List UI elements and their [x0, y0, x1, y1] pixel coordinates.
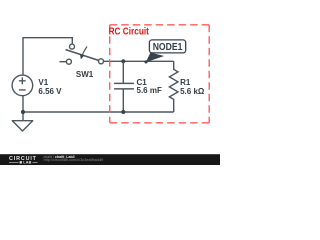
svg-text:6.56 V: 6.56 V	[38, 87, 62, 96]
svg-text:SW1: SW1	[76, 70, 94, 79]
wire stub unused throw	[60, 61, 67, 63]
voltage source V1	[12, 75, 33, 96]
annotation box RC Circuit (red dashed)	[110, 25, 210, 123]
svg-text:5.6 kΩ: 5.6 kΩ	[180, 87, 205, 96]
capacitor C1	[114, 83, 134, 89]
svg-text:NODE1: NODE1	[153, 42, 183, 53]
svg-text:R1: R1	[180, 78, 191, 87]
switch arrow	[82, 47, 87, 55]
wire V1 bottom to ground node	[22, 96, 24, 112]
terminal top throw	[70, 44, 75, 49]
wire top from V1 to switch corner	[23, 38, 72, 75]
watermark bar	[0, 154, 220, 165]
switch SW1	[60, 44, 104, 64]
wire C1 bottom lead	[122, 89, 124, 112]
node NODE1 flag	[149, 40, 185, 53]
svg-text:RC Circuit: RC Circuit	[109, 26, 150, 37]
svg-text:V1: V1	[38, 78, 48, 87]
svg-text:http://circuitlab.com/c/3c3ea9: http://circuitlab.com/c/3c3ea9ba4d9	[44, 158, 104, 162]
svg-text:LAB: LAB	[23, 161, 31, 165]
terminal bottom throw	[66, 59, 71, 64]
svg-text:5.6 mF: 5.6 mF	[137, 86, 162, 95]
wire switch to resistor	[103, 60, 173, 62]
node junction top of C1	[121, 59, 125, 63]
ground	[12, 121, 32, 131]
node ground junction	[21, 110, 25, 114]
switch blade	[66, 50, 99, 61]
wire C1 top lead	[122, 61, 124, 83]
node junction bottom of C1	[121, 110, 125, 114]
wire bottom rail	[23, 111, 174, 113]
terminal common	[99, 59, 104, 64]
resistor R1	[169, 61, 178, 112]
wire ground lead	[22, 112, 24, 121]
node NODE1 flag tail	[146, 53, 164, 63]
